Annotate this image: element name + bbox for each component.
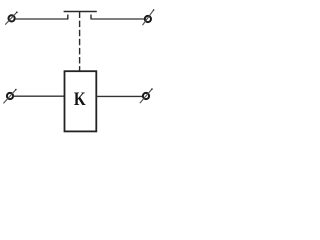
- wire bottom-right: [96, 95, 142, 97]
- mechanical link (dashed) from bridge to coil: [79, 12, 81, 72]
- wire bottom-left: [13, 95, 64, 97]
- contact fixed terminal right (tick): [90, 15, 92, 20]
- contact fixed terminal left (tick): [67, 15, 69, 20]
- terminal X2 (top-right, slashed circle): [143, 9, 155, 25]
- wire top-right: [92, 18, 145, 20]
- terminal X4 (bottom-right, slashed circle): [140, 88, 153, 103]
- wire top-left: [15, 18, 68, 20]
- svg-text:K: K: [74, 88, 86, 109]
- contact bridge bar: [64, 11, 97, 13]
- terminal X1 (top-left, slashed circle): [5, 11, 18, 24]
- terminal X3 (bottom-left, slashed circle): [3, 89, 16, 104]
- coil K (rectangle): [65, 71, 97, 131]
- relay K : contact + coil schematic: [0, 0, 163, 138]
